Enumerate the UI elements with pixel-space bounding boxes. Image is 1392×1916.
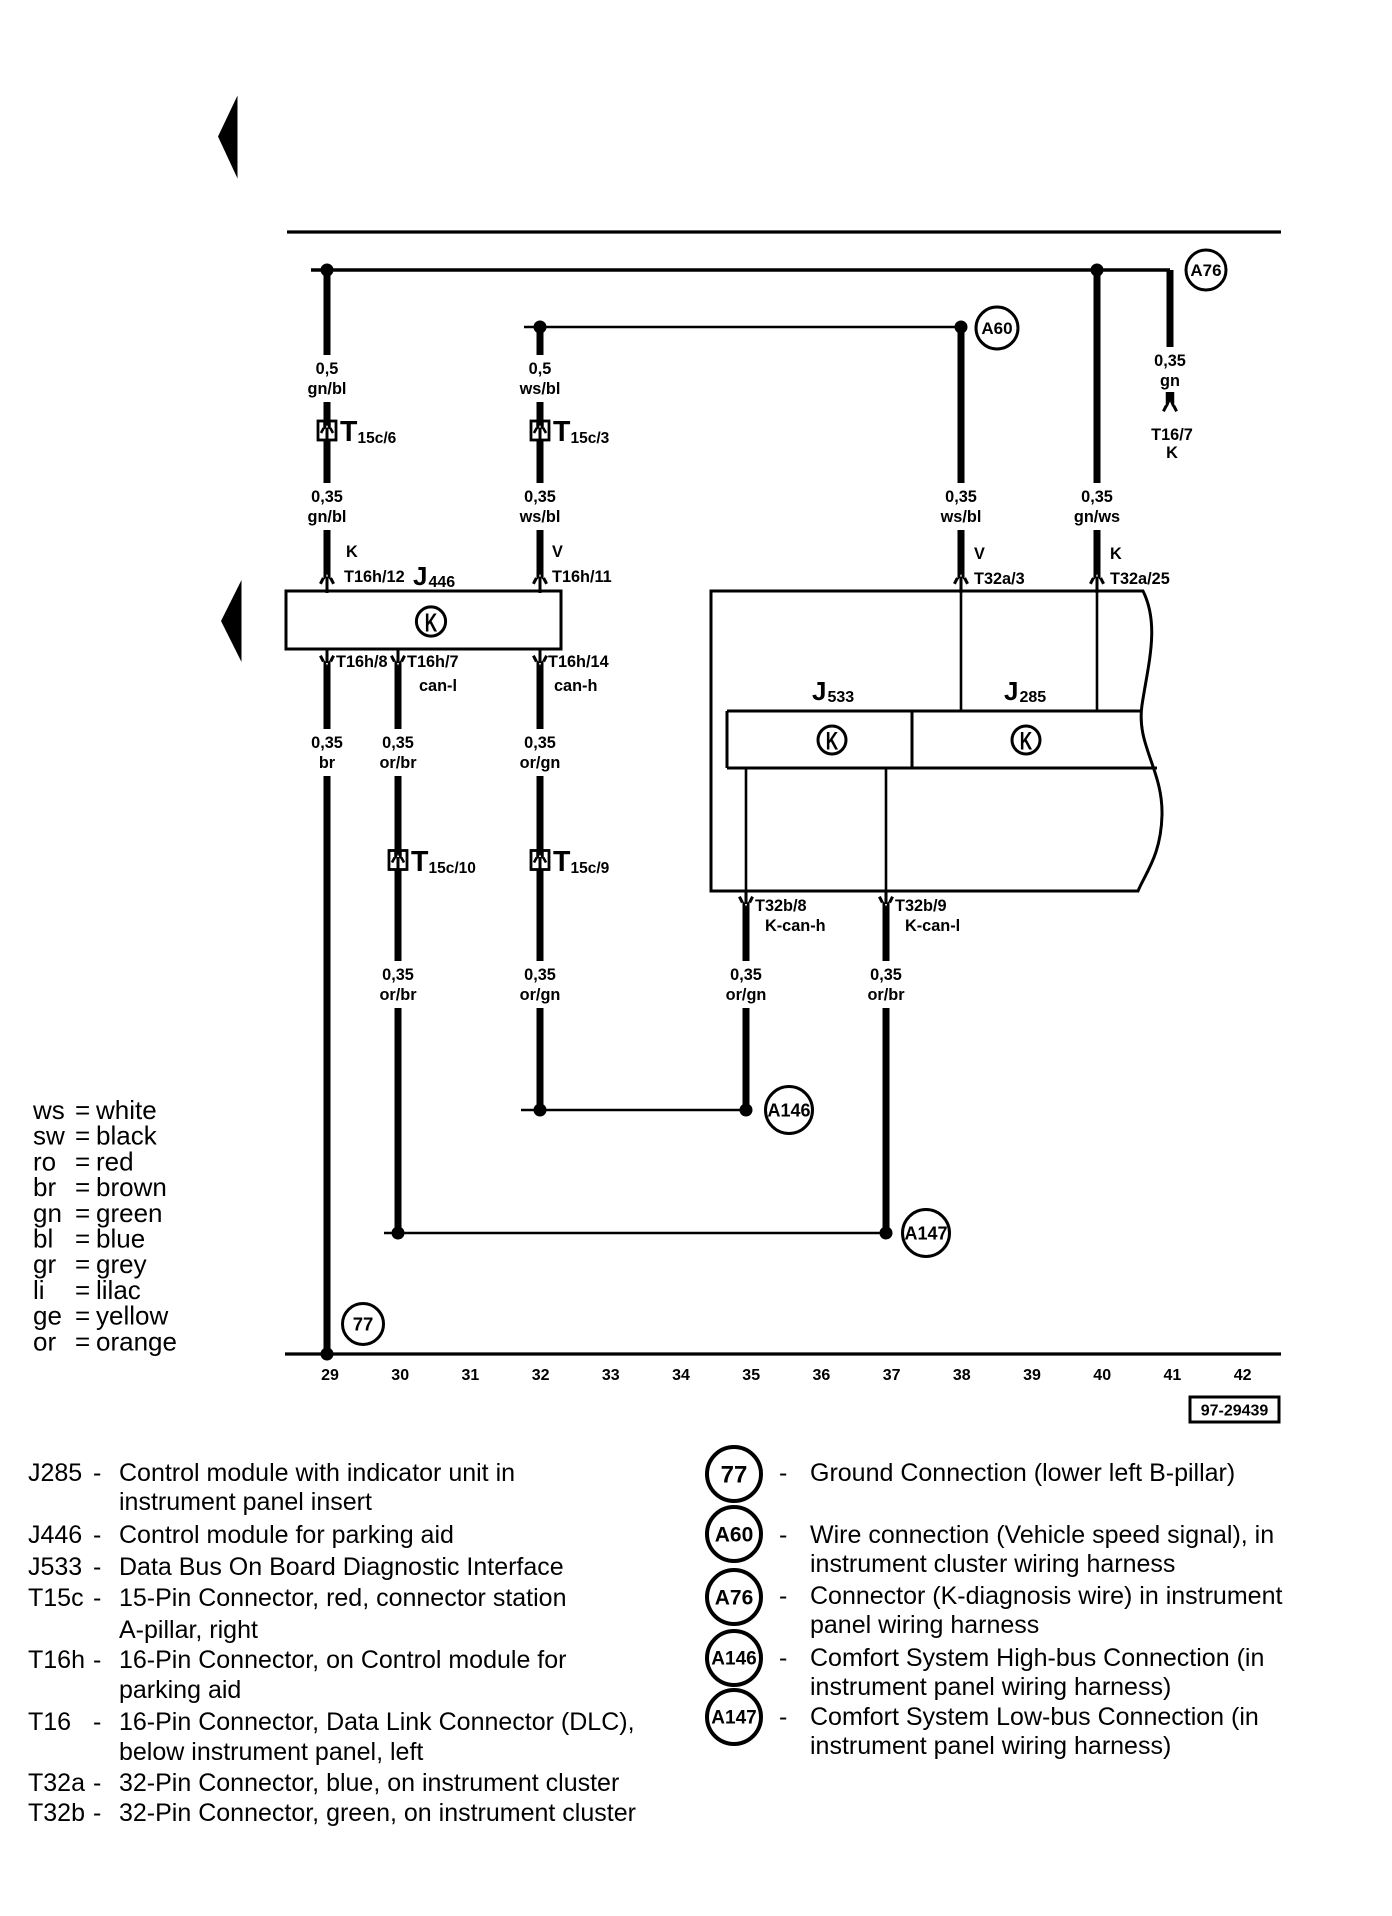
svg-text:V: V — [552, 543, 563, 561]
svg-text:T32a: T32a — [28, 1769, 85, 1797]
svg-text:J: J — [1004, 676, 1018, 706]
svg-text:35: 35 — [742, 1367, 760, 1384]
svg-text:instrument cluster wiring harn: instrument cluster wiring harness — [810, 1550, 1175, 1578]
svg-text:parking aid: parking aid — [119, 1676, 241, 1704]
svg-text:38: 38 — [953, 1367, 971, 1384]
svg-text:32-Pin Connector, blue, on ins: 32-Pin Connector, blue, on instrument cl… — [119, 1769, 619, 1797]
svg-text:Control module for parking aid: Control module for parking aid — [119, 1521, 454, 1549]
svg-text:T32b/9: T32b/9 — [895, 897, 947, 915]
svg-text:-: - — [93, 1553, 101, 1581]
svg-text:-: - — [779, 1703, 787, 1731]
svg-text:A147: A147 — [904, 1223, 947, 1243]
svg-text:-: - — [779, 1459, 787, 1487]
svg-text:Control module with indicator: Control module with indicator unit in — [119, 1459, 515, 1487]
svg-text:-: - — [93, 1708, 101, 1736]
svg-text:40: 40 — [1093, 1367, 1111, 1384]
svg-text:A147: A147 — [711, 1708, 756, 1729]
svg-text:15c/9: 15c/9 — [571, 860, 610, 877]
svg-text:T32b: T32b — [28, 1799, 85, 1827]
svg-text:A76: A76 — [1190, 261, 1221, 280]
svg-text:A60: A60 — [981, 319, 1012, 338]
svg-text:T32a/3: T32a/3 — [974, 570, 1025, 588]
svg-text:orange: orange — [96, 1326, 177, 1356]
svg-text:Connector (K-diagnosis wire) i: Connector (K-diagnosis wire) in instrume… — [810, 1582, 1282, 1610]
svg-text:T16h/12: T16h/12 — [344, 568, 405, 586]
svg-text:Data Bus On Board Diagnostic I: Data Bus On Board Diagnostic Interface — [119, 1553, 564, 1581]
svg-text:42: 42 — [1234, 1367, 1252, 1384]
svg-text:-: - — [93, 1584, 101, 1612]
svg-text:15c/10: 15c/10 — [429, 860, 476, 877]
svg-text:K: K — [346, 543, 358, 561]
svg-text:J285: J285 — [28, 1459, 82, 1487]
svg-text:30: 30 — [391, 1367, 409, 1384]
svg-text:32: 32 — [532, 1367, 550, 1384]
svg-text:K: K — [1110, 545, 1122, 563]
svg-text:0,35: 0,35 — [870, 966, 902, 984]
svg-text:-: - — [93, 1799, 101, 1827]
svg-text:32-Pin Connector, green, on in: 32-Pin Connector, green, on instrument c… — [119, 1799, 636, 1827]
svg-text:J533: J533 — [28, 1553, 82, 1581]
svg-text:K: K — [425, 607, 438, 637]
svg-text:15-Pin Connector, red, connect: 15-Pin Connector, red, connector station — [119, 1584, 567, 1612]
svg-text:T32b/8: T32b/8 — [755, 897, 807, 915]
svg-text:or/gn: or/gn — [726, 986, 767, 1004]
svg-text:97-29439: 97-29439 — [1201, 1403, 1269, 1420]
svg-text:16-Pin Connector, on Control m: 16-Pin Connector, on Control module for — [119, 1646, 566, 1674]
svg-text:-: - — [779, 1644, 787, 1672]
svg-text:-: - — [779, 1582, 787, 1610]
svg-text:=: = — [75, 1326, 90, 1356]
svg-text:T16h/11: T16h/11 — [552, 568, 612, 586]
svg-text:gn: gn — [1160, 372, 1180, 390]
svg-text:T: T — [411, 846, 429, 878]
svg-text:or/br: or/br — [379, 754, 417, 772]
svg-text:0,5: 0,5 — [316, 360, 339, 378]
svg-text:gn/bl: gn/bl — [308, 380, 347, 398]
svg-text:J: J — [413, 561, 427, 591]
svg-text:A146: A146 — [711, 1649, 756, 1670]
svg-text:0,35: 0,35 — [524, 734, 556, 752]
svg-text:0,35: 0,35 — [524, 488, 556, 506]
svg-text:0,35: 0,35 — [1154, 352, 1186, 370]
svg-text:K: K — [1166, 444, 1178, 462]
svg-text:533: 533 — [828, 689, 855, 706]
svg-text:T16h/14: T16h/14 — [548, 653, 609, 671]
svg-text:T: T — [553, 416, 571, 448]
svg-text:ws/bl: ws/bl — [519, 508, 561, 526]
svg-text:0,35: 0,35 — [730, 966, 762, 984]
svg-text:16-Pin Connector, Data Link Co: 16-Pin Connector, Data Link Connector (D… — [119, 1708, 635, 1736]
svg-text:0,35: 0,35 — [1081, 488, 1113, 506]
svg-text:below instrument panel, left: below instrument panel, left — [119, 1738, 423, 1766]
svg-text:37: 37 — [883, 1367, 901, 1384]
svg-text:41: 41 — [1164, 1367, 1182, 1384]
svg-text:Wire connection (Vehicle speed: Wire connection (Vehicle speed signal), … — [810, 1521, 1274, 1549]
svg-text:V: V — [974, 545, 985, 563]
svg-text:T16h/8: T16h/8 — [336, 653, 388, 671]
svg-text:15c/6: 15c/6 — [358, 430, 397, 447]
svg-text:K-can-h: K-can-h — [765, 917, 826, 935]
svg-text:A146: A146 — [767, 1100, 810, 1120]
svg-text:ws/bl: ws/bl — [519, 380, 561, 398]
svg-text:34: 34 — [672, 1367, 690, 1384]
svg-text:-: - — [779, 1521, 787, 1549]
svg-text:T16h/7: T16h/7 — [407, 653, 459, 671]
svg-text:gn/bl: gn/bl — [308, 508, 347, 526]
svg-text:T16h: T16h — [28, 1646, 85, 1674]
svg-text:285: 285 — [1020, 689, 1047, 706]
svg-text:gn/ws: gn/ws — [1074, 508, 1120, 526]
svg-text:15c/3: 15c/3 — [571, 430, 610, 447]
svg-text:77: 77 — [721, 1461, 748, 1488]
svg-text:K: K — [826, 728, 839, 756]
svg-text:0,35: 0,35 — [311, 488, 343, 506]
svg-text:T16/7: T16/7 — [1151, 426, 1193, 444]
svg-text:Comfort System High-bus Connec: Comfort System High-bus Connection (in — [810, 1644, 1264, 1672]
svg-text:or/gn: or/gn — [520, 754, 561, 772]
svg-text:T: T — [340, 416, 358, 448]
svg-text:0,35: 0,35 — [524, 966, 556, 984]
svg-text:K: K — [1020, 728, 1033, 756]
svg-text:29: 29 — [321, 1367, 339, 1384]
svg-text:39: 39 — [1023, 1367, 1041, 1384]
svg-text:A-pillar, right: A-pillar, right — [119, 1616, 258, 1644]
svg-text:T: T — [553, 846, 571, 878]
svg-text:Comfort System Low-bus Connect: Comfort System Low-bus Connection (in — [810, 1703, 1259, 1731]
svg-text:0,35: 0,35 — [382, 734, 414, 752]
svg-text:-: - — [93, 1521, 101, 1549]
svg-text:or: or — [33, 1326, 56, 1356]
svg-text:J: J — [812, 676, 826, 706]
svg-text:0,35: 0,35 — [382, 966, 414, 984]
svg-text:or/br: or/br — [379, 986, 417, 1004]
svg-text:33: 33 — [602, 1367, 620, 1384]
svg-text:instrument panel insert: instrument panel insert — [119, 1488, 372, 1516]
svg-text:T15c: T15c — [28, 1584, 84, 1612]
svg-text:A60: A60 — [715, 1523, 754, 1546]
svg-text:instrument panel wiring harnes: instrument panel wiring harness) — [810, 1673, 1171, 1701]
svg-text:36: 36 — [813, 1367, 831, 1384]
svg-text:-: - — [93, 1459, 101, 1487]
svg-text:A76: A76 — [715, 1586, 754, 1609]
svg-text:or/gn: or/gn — [520, 986, 561, 1004]
svg-text:77: 77 — [353, 1313, 374, 1334]
svg-text:ws/bl: ws/bl — [940, 508, 982, 526]
svg-text:K-can-l: K-can-l — [905, 917, 960, 935]
svg-text:Ground Connection (lower left: Ground Connection (lower left B-pillar) — [810, 1459, 1235, 1487]
svg-text:446: 446 — [429, 574, 456, 591]
svg-text:br: br — [319, 754, 336, 772]
svg-text:0,5: 0,5 — [529, 360, 552, 378]
svg-text:-: - — [93, 1769, 101, 1797]
svg-text:T16: T16 — [28, 1708, 71, 1736]
svg-text:0,35: 0,35 — [945, 488, 977, 506]
svg-text:J446: J446 — [28, 1521, 82, 1549]
svg-text:can-l: can-l — [419, 677, 457, 695]
svg-text:T32a/25: T32a/25 — [1110, 570, 1170, 588]
svg-text:or/br: or/br — [867, 986, 905, 1004]
svg-text:panel wiring harness: panel wiring harness — [810, 1611, 1039, 1639]
svg-text:instrument panel wiring harnes: instrument panel wiring harness) — [810, 1732, 1171, 1760]
svg-text:31: 31 — [462, 1367, 480, 1384]
svg-text:can-h: can-h — [554, 677, 597, 695]
svg-text:0,35: 0,35 — [311, 734, 343, 752]
svg-text:-: - — [93, 1646, 101, 1674]
